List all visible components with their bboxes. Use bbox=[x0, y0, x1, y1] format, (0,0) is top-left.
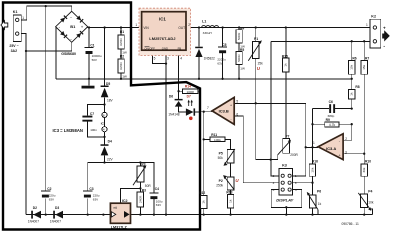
svg-text:IC3.B: IC3.B bbox=[219, 109, 229, 114]
svg-text:R5: R5 bbox=[240, 48, 244, 52]
svg-text:50k: 50k bbox=[218, 156, 224, 160]
svg-text:1N5822: 1N5822 bbox=[204, 56, 215, 60]
svg-text:1k: 1k bbox=[350, 92, 354, 96]
svg-text:1N4007: 1N4007 bbox=[50, 219, 61, 223]
svg-text:25k: 25k bbox=[258, 62, 264, 66]
svg-text:C3: C3 bbox=[89, 187, 93, 191]
svg-text:D2: D2 bbox=[33, 206, 37, 210]
svg-text:VIN: VIN bbox=[143, 26, 149, 30]
svg-text:R7: R7 bbox=[365, 56, 369, 60]
svg-text:100n: 100n bbox=[90, 128, 97, 132]
svg-text:1W: 1W bbox=[240, 66, 245, 70]
svg-text:R2: R2 bbox=[120, 54, 124, 58]
svg-text:C5: C5 bbox=[222, 43, 226, 47]
svg-text:25V ~: 25V ~ bbox=[9, 44, 18, 48]
svg-text:OUT: OUT bbox=[178, 26, 185, 30]
svg-text:50V: 50V bbox=[92, 58, 97, 62]
svg-text:15k: 15k bbox=[362, 64, 366, 69]
svg-text:IC3 = LM358AN: IC3 = LM358AN bbox=[53, 128, 83, 133]
svg-text:63V: 63V bbox=[156, 203, 161, 207]
svg-text:10k: 10k bbox=[368, 201, 374, 205]
svg-text:5: 5 bbox=[154, 57, 156, 61]
svg-text:3: 3 bbox=[345, 151, 347, 155]
svg-text:R12: R12 bbox=[199, 191, 205, 195]
svg-text:10k: 10k bbox=[310, 167, 314, 172]
svg-text:+: + bbox=[339, 154, 341, 158]
svg-text:+: + bbox=[81, 24, 84, 29]
svg-text:R10: R10 bbox=[365, 160, 371, 164]
svg-text:R1: R1 bbox=[120, 30, 124, 34]
svg-text:GND: GND bbox=[162, 46, 168, 50]
svg-text:LM2576T-ADJ: LM2576T-ADJ bbox=[149, 36, 175, 41]
svg-text:K1: K1 bbox=[13, 10, 18, 14]
svg-text:adj: adj bbox=[113, 206, 117, 210]
svg-text:7: 7 bbox=[207, 106, 209, 110]
svg-text:1k: 1k bbox=[284, 63, 288, 67]
svg-text:R16: R16 bbox=[312, 160, 318, 164]
svg-text:3A2: 3A2 bbox=[11, 49, 17, 53]
svg-text:ON/OFF: ON/OFF bbox=[144, 46, 155, 50]
svg-text:R13: R13 bbox=[226, 191, 232, 195]
svg-text:P6: P6 bbox=[317, 190, 321, 194]
svg-text:P7: P7 bbox=[285, 135, 289, 139]
svg-text:500R: 500R bbox=[237, 54, 241, 62]
svg-text:6: 6 bbox=[236, 112, 238, 116]
svg-text:C7: C7 bbox=[90, 112, 94, 116]
svg-text:1k: 1k bbox=[229, 199, 233, 203]
svg-text:C1: C1 bbox=[90, 44, 94, 48]
svg-text:4.7k: 4.7k bbox=[329, 123, 336, 127]
svg-text:C4: C4 bbox=[155, 187, 159, 191]
svg-text:GSIB680: GSIB680 bbox=[61, 52, 76, 56]
svg-text:K2: K2 bbox=[371, 15, 376, 19]
svg-text:39k: 39k bbox=[362, 167, 366, 172]
svg-text:620R: 620R bbox=[119, 62, 123, 70]
svg-text:D4: D4 bbox=[108, 139, 112, 143]
svg-text:2: 2 bbox=[188, 23, 190, 27]
svg-text:D6: D6 bbox=[169, 95, 173, 99]
svg-text:1N4007: 1N4007 bbox=[28, 219, 39, 223]
svg-text:1k: 1k bbox=[202, 200, 206, 204]
svg-text:R15: R15 bbox=[282, 54, 288, 58]
svg-text:IC1: IC1 bbox=[159, 17, 166, 22]
svg-text:5: 5 bbox=[236, 99, 238, 103]
svg-text:330uH: 330uH bbox=[203, 31, 212, 35]
svg-text:18V: 18V bbox=[107, 98, 114, 102]
svg-text:63V: 63V bbox=[49, 197, 54, 201]
svg-text:22V: 22V bbox=[107, 158, 114, 162]
svg-text:D5: D5 bbox=[106, 82, 110, 86]
svg-text:+: + bbox=[383, 25, 386, 30]
svg-text:K3: K3 bbox=[282, 164, 287, 168]
svg-text:P3: P3 bbox=[141, 162, 145, 166]
svg-text:1k: 1k bbox=[318, 202, 322, 206]
svg-text:LM317LZ: LM317LZ bbox=[111, 225, 128, 229]
svg-text:IC3.A: IC3.A bbox=[326, 146, 336, 151]
svg-text:500R: 500R bbox=[237, 32, 241, 40]
svg-text:P2: P2 bbox=[219, 179, 223, 183]
svg-text:R3: R3 bbox=[142, 188, 146, 192]
svg-text:4: 4 bbox=[180, 57, 182, 61]
svg-text:+: + bbox=[230, 104, 232, 108]
svg-text:240R: 240R bbox=[138, 195, 142, 203]
svg-text:100k: 100k bbox=[214, 138, 221, 142]
svg-text:250k: 250k bbox=[216, 183, 223, 187]
svg-text:090786 - 11: 090786 - 11 bbox=[342, 222, 360, 226]
svg-text:R8: R8 bbox=[355, 85, 359, 89]
svg-text:200R: 200R bbox=[290, 153, 298, 157]
svg-text:L1: L1 bbox=[202, 19, 206, 23]
svg-text:IC2: IC2 bbox=[122, 199, 128, 203]
svg-text:C2: C2 bbox=[47, 187, 51, 191]
svg-text:R4: R4 bbox=[240, 26, 244, 30]
svg-text:50R: 50R bbox=[145, 184, 152, 188]
svg-text:1: 1 bbox=[22, 16, 24, 20]
svg-text:100R: 100R bbox=[186, 90, 194, 94]
svg-text:R11: R11 bbox=[211, 133, 217, 137]
svg-text:63V: 63V bbox=[93, 197, 98, 201]
svg-text:B1: B1 bbox=[70, 24, 76, 29]
svg-text:DISPLAY: DISPLAY bbox=[276, 197, 293, 202]
svg-text:P4: P4 bbox=[368, 190, 372, 194]
svg-text:1W: 1W bbox=[122, 75, 127, 79]
svg-text:R6: R6 bbox=[352, 56, 356, 60]
svg-text:1: 1 bbox=[135, 23, 137, 27]
svg-text:R14: R14 bbox=[185, 85, 191, 89]
svg-text:2: 2 bbox=[345, 137, 347, 141]
svg-text:FB: FB bbox=[178, 46, 182, 50]
svg-text:C6: C6 bbox=[329, 100, 333, 104]
svg-text:3: 3 bbox=[167, 57, 169, 61]
svg-text:1N4148: 1N4148 bbox=[168, 113, 179, 117]
svg-text:P1: P1 bbox=[254, 37, 258, 41]
svg-text:1: 1 bbox=[313, 141, 315, 145]
svg-text:63V: 63V bbox=[217, 61, 222, 65]
svg-text:10k: 10k bbox=[350, 64, 354, 69]
svg-text:D3: D3 bbox=[55, 206, 59, 210]
svg-text:IC3: IC3 bbox=[101, 122, 106, 126]
svg-text:1: 1 bbox=[366, 23, 368, 27]
svg-text:R9: R9 bbox=[326, 118, 330, 122]
svg-text:D7: D7 bbox=[187, 94, 191, 98]
svg-text:620R: 620R bbox=[119, 38, 123, 46]
